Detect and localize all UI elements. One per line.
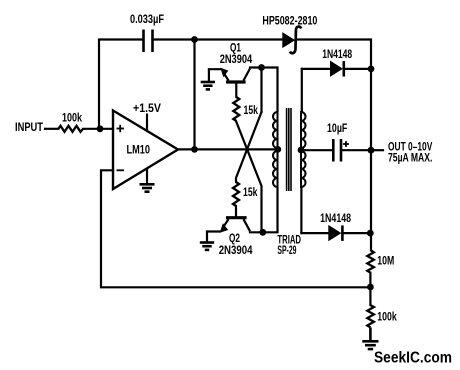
resistor 15k lower	[233, 182, 239, 206]
svg-text:HP5082-2810: HP5082-2810	[262, 14, 317, 28]
wire vertical cap node to opamp output	[193, 40, 195, 150]
wire top 1N4148 right	[344, 68, 371, 70]
svg-text:15k: 15k	[244, 103, 259, 117]
wire top 1N4148 left	[302, 68, 331, 70]
wire top node to HP diode	[195, 38, 282, 40]
svg-text:100k: 100k	[62, 111, 82, 125]
wire diag upper 15k to Q2 collector rail	[236, 121, 262, 232]
node feedback	[367, 284, 374, 291]
svg-text:SP-29: SP-29	[277, 243, 296, 257]
wire cap 10uF left	[301, 149, 333, 151]
wire output stub	[371, 149, 383, 151]
diode 1N4148 bottom	[329, 225, 343, 241]
svg-text:2N3904: 2N3904	[220, 52, 253, 66]
svg-text:LM10: LM10	[127, 143, 151, 157]
wire bottom 1N4148 left	[301, 232, 328, 234]
svg-text:2N3904: 2N3904	[219, 243, 253, 257]
wire secondary top lead	[301, 69, 303, 111]
svg-text:INPUT: INPUT	[15, 120, 43, 134]
resistor 100k input	[59, 126, 84, 132]
transistor Q1	[209, 68, 262, 83]
wire feedback from minus input	[101, 170, 370, 287]
node top diode cathode	[368, 66, 375, 73]
node Q1 collector	[258, 64, 265, 71]
node input	[97, 125, 104, 132]
resistor 100k bottom	[367, 305, 374, 327]
wire bottom 1N4148 right	[343, 232, 371, 234]
svg-text:10M: 10M	[377, 254, 394, 268]
wire right rail lower	[369, 273, 371, 305]
transformer T1 secondary	[301, 111, 306, 188]
ground Q1	[201, 82, 215, 89]
wire top left horizontal	[99, 40, 143, 129]
transformer core	[287, 108, 291, 191]
diode HP5082-2810	[283, 27, 301, 54]
svg-text:0.033µF: 0.033µF	[130, 12, 164, 26]
wire right rail mid	[370, 150, 372, 250]
wire right rail upper	[370, 69, 372, 150]
capacitor 0.033uF	[144, 30, 153, 53]
opamp supply pin	[146, 114, 148, 132]
node opamp output	[191, 146, 198, 153]
node cap top	[191, 36, 198, 43]
node Q2 collector	[259, 229, 266, 236]
ground bottom right	[362, 327, 378, 349]
node secondary center tap	[298, 147, 305, 154]
wire Q1 collector node down	[260, 68, 262, 113]
node bottom diode cathode	[367, 230, 374, 237]
resistor 15k upper	[233, 97, 239, 121]
transistor Q2	[207, 218, 263, 242]
transformer T1 primary	[273, 111, 278, 188]
wire resistor to opamp	[83, 128, 113, 130]
plus sign 10uF	[343, 141, 349, 147]
wire diag Q1-node to lower 15k	[236, 112, 262, 182]
svg-text:1N4148: 1N4148	[320, 211, 351, 225]
svg-text:SeekIC.com: SeekIC.com	[374, 350, 452, 367]
svg-text:1N4148: 1N4148	[322, 47, 352, 61]
wire Q2 base lead	[235, 206, 237, 217]
wire primary bottom lead	[263, 188, 278, 232]
wire input stub	[45, 128, 58, 130]
node primary center tap	[274, 146, 281, 153]
wire cap 10uF right	[341, 149, 371, 151]
resistor 10M	[367, 250, 374, 272]
wire primary top lead	[262, 68, 278, 112]
op-amp U1 LM10	[113, 111, 178, 190]
svg-text:75µA MAX.: 75µA MAX.	[388, 150, 432, 164]
ground Q2	[200, 243, 214, 250]
ground opamp	[140, 184, 155, 191]
svg-text:10µF: 10µF	[327, 121, 348, 135]
diode 1N4148 top	[331, 61, 344, 77]
node output	[368, 147, 375, 154]
opamp ground pin	[146, 168, 148, 184]
wire cap to top node	[153, 38, 196, 40]
capacitor 10uF	[333, 139, 341, 162]
wire secondary bottom lead	[300, 188, 302, 233]
svg-text:15k: 15k	[243, 185, 258, 199]
wire HP diode to right rail	[297, 40, 372, 69]
svg-text:100k: 100k	[377, 310, 396, 324]
wire opamp output to center tap	[178, 148, 278, 150]
wire Q1 base lead	[235, 82, 237, 97]
svg-text:+1.5V: +1.5V	[133, 101, 162, 115]
